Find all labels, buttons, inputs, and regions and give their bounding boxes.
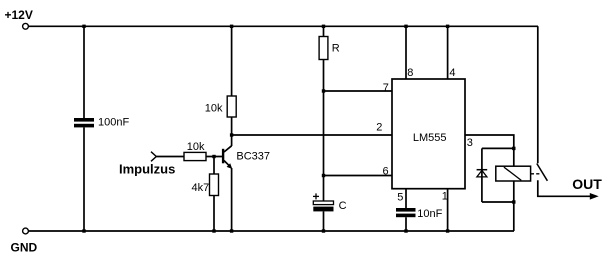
resistor 10k (series input)	[184, 152, 206, 160]
svg-text:4k7: 4k7	[192, 182, 210, 194]
junction top rail / R	[322, 25, 325, 28]
junction bottom rail / 100nF	[82, 229, 85, 232]
wire switch to OUT	[538, 180, 591, 196]
wire 10k pullup to collector node	[231, 117, 233, 146]
wire R branch top	[323, 26, 325, 36]
wire pin 8	[405, 26, 407, 79]
input arrow Impulzus	[151, 152, 156, 162]
junction relay node top	[512, 147, 515, 150]
junction top rail / 10k pullup	[230, 25, 233, 28]
wire pin 5	[405, 189, 407, 208]
switch blade	[537, 164, 548, 181]
resistor 10k (vertical pullup)	[227, 96, 236, 117]
svg-text:Impulzus: Impulzus	[119, 162, 175, 177]
resistor 4k7	[210, 174, 219, 196]
junction bottom rail / C	[322, 229, 325, 232]
wire diode branch vertical	[481, 148, 483, 202]
relay actuator dashed link	[531, 173, 542, 175]
wire 4k7 upper	[213, 157, 215, 175]
transistor Q1 BC337	[223, 146, 232, 169]
junction base node / 4k7	[212, 155, 215, 158]
wire pin 3 to relay	[465, 135, 514, 166]
capacitor 10nF	[396, 208, 416, 217]
resistor R	[319, 37, 328, 60]
wire C to bottom rail	[323, 211, 325, 231]
svg-text:3: 3	[467, 137, 473, 149]
wire +12V top rail	[29, 25, 538, 27]
junction pin 6 node	[322, 174, 325, 177]
junction top rail / 100nF	[82, 25, 85, 28]
relay K1 coil	[496, 166, 531, 181]
wire pin 1	[447, 189, 449, 231]
wire 10k pullup top	[231, 26, 233, 96]
svg-text:10nF: 10nF	[417, 208, 442, 220]
svg-text:LM555: LM555	[413, 132, 447, 144]
junction bottom rail / 4k7	[212, 229, 215, 232]
junction collector node / pin2 wire	[230, 133, 233, 136]
diode D1	[477, 170, 488, 177]
svg-text:10k: 10k	[205, 103, 223, 115]
svg-text:100nF: 100nF	[98, 117, 129, 129]
svg-text:C: C	[339, 200, 347, 212]
junction bottom rail / pin 1	[446, 229, 449, 232]
wire emitter to bottom rail	[231, 168, 233, 231]
capacitor C plus sign	[313, 193, 319, 199]
capacitor C (electrolytic)	[313, 201, 333, 211]
svg-text:7: 7	[383, 82, 389, 94]
svg-text:6: 6	[383, 165, 389, 177]
GND terminal	[23, 228, 29, 234]
junction bottom rail / pin 5	[404, 229, 407, 232]
svg-text:+12V: +12V	[5, 8, 33, 22]
junction pin 7 node	[322, 89, 325, 92]
wire relay to bottom rail	[513, 181, 515, 231]
svg-text:1: 1	[442, 191, 448, 203]
wire 10nF to bottom rail	[405, 217, 407, 231]
wire pin 6	[324, 175, 393, 177]
wire diode branch bottom	[482, 201, 514, 203]
svg-text:GND: GND	[11, 240, 38, 254]
capacitor 100nF	[74, 118, 94, 127]
junction top rail / pin 8	[404, 25, 407, 28]
wire GND bottom rail	[29, 230, 514, 232]
svg-text:4: 4	[449, 67, 455, 79]
svg-text:8: 8	[407, 67, 413, 79]
OUT arrowhead	[590, 193, 599, 200]
junction relay node bottom	[512, 200, 515, 203]
svg-text:R: R	[332, 42, 340, 54]
wire 4k7 lower	[213, 196, 215, 232]
wire R to C (through pin7/pin6 nodes)	[323, 60, 325, 202]
svg-text:OUT: OUT	[572, 176, 602, 192]
svg-text:BC337: BC337	[236, 151, 270, 163]
wire pin 2	[232, 134, 392, 136]
+12V terminal	[23, 23, 29, 29]
junction bottom rail / emitter	[230, 229, 233, 232]
svg-text:2: 2	[376, 121, 382, 133]
svg-text:10k: 10k	[187, 141, 205, 153]
wire 10k series to base	[206, 156, 222, 158]
svg-text:5: 5	[397, 191, 403, 203]
wire 100nF branch lower	[83, 127, 85, 231]
wire switch feed	[537, 26, 539, 163]
op-amp U1 LM555 box	[392, 79, 465, 189]
wire pin 4	[447, 26, 449, 79]
wire input to 10k series	[156, 156, 184, 158]
junction top rail / pin 4	[446, 25, 449, 28]
wire pin 7	[324, 90, 393, 92]
wire diode branch top	[482, 147, 514, 149]
wire 100nF branch upper	[83, 26, 85, 118]
